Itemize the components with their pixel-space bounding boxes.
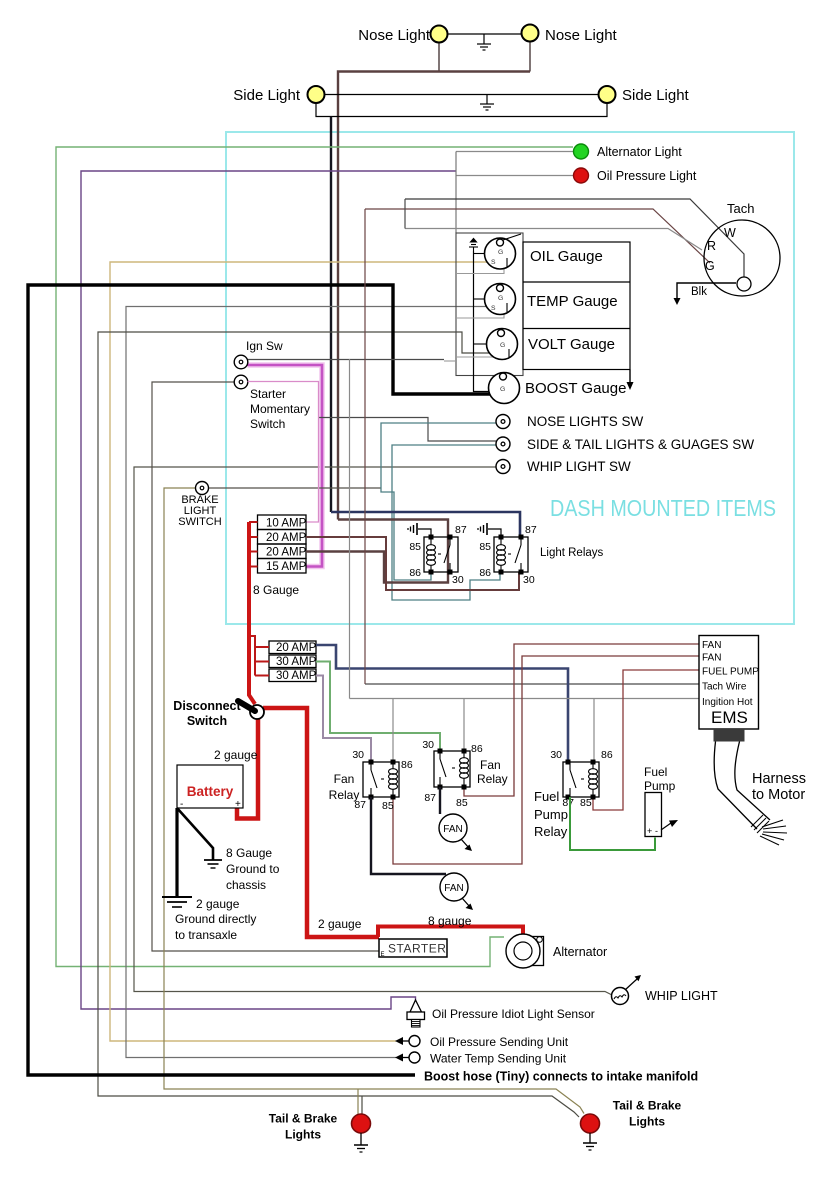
- svg-text:Ingition Hot: Ingition Hot: [702, 697, 753, 708]
- fuse1 red feed: [249, 522, 258, 567]
- svg-text:FAN: FAN: [702, 653, 721, 664]
- wire nose light right drop: [529, 41, 531, 72]
- oil pressure light: [574, 168, 589, 183]
- svg-text:85: 85: [456, 797, 468, 809]
- wire brown fuse 20amp to light relay L2: [306, 537, 519, 590]
- wire red fuse feed to disconnect: [249, 522, 255, 704]
- oil pressure idiot light sensor: [410, 1000, 422, 1012]
- dash mounted items box: [226, 132, 794, 624]
- svg-text:86: 86: [479, 567, 491, 579]
- svg-text:86: 86: [401, 759, 413, 771]
- svg-text:TEMP Gauge: TEMP Gauge: [527, 293, 618, 310]
- wire side lights to relay feed black: [330, 117, 332, 513]
- wire nose lights feed brown: [338, 72, 530, 520]
- volt gauge circle: [487, 329, 518, 360]
- svg-text:FAN: FAN: [702, 640, 721, 651]
- svg-text:85: 85: [382, 800, 394, 812]
- tach terminal circle: [737, 277, 751, 291]
- gauge cluster tall box: [456, 233, 523, 376]
- svg-text:Tach Wire: Tach Wire: [702, 682, 747, 693]
- wire battery ground to transaxle: [175, 808, 178, 897]
- light relay L2 terminals: [499, 535, 524, 575]
- svg-text:86: 86: [601, 749, 613, 761]
- nose lights sw terminal: [496, 415, 510, 429]
- wire tail light left second drop: [361, 1096, 363, 1114]
- wire gray stub to alternator light: [456, 151, 573, 153]
- svg-text:Blk: Blk: [691, 286, 707, 298]
- svg-text:Relay: Relay: [477, 772, 508, 786]
- svg-text:Lights: Lights: [629, 1115, 665, 1129]
- svg-text:W: W: [724, 226, 736, 240]
- wire navy side lights to relay L2 87: [331, 512, 520, 537]
- svg-text:8 gauge: 8 gauge: [428, 914, 472, 928]
- svg-text:-: -: [180, 799, 183, 810]
- svg-text:BOOST Gauge: BOOST Gauge: [525, 380, 626, 397]
- svg-text:Water Temp Sending Unit: Water Temp Sending Unit: [430, 1052, 567, 1066]
- svg-text:Oil Pressure Idiot Light Senso: Oil Pressure Idiot Light Sensor: [432, 1007, 595, 1021]
- wire fan relay A 87 to fan2: [371, 797, 446, 874]
- svg-text:Battery: Battery: [187, 784, 234, 799]
- svg-text:Switch: Switch: [187, 714, 227, 728]
- light relay L2 box: [494, 537, 528, 572]
- wire between nose lights: [447, 33, 522, 35]
- wire purple oil-pressure-light loop: [81, 171, 456, 1009]
- svg-text:G: G: [498, 295, 503, 302]
- tail light left ground: [360, 1133, 362, 1145]
- light relay L1 ground: [418, 529, 431, 537]
- alternator light: [574, 144, 589, 159]
- svg-text:Ign Sw: Ign Sw: [246, 339, 283, 353]
- svg-text:30: 30: [523, 574, 535, 586]
- svg-text:86: 86: [409, 567, 421, 579]
- svg-text:VOLT Gauge: VOLT Gauge: [528, 336, 615, 353]
- svg-text:20 AMP: 20 AMP: [266, 547, 307, 559]
- svg-text:S: S: [491, 259, 496, 266]
- svg-text:Side Light: Side Light: [622, 87, 690, 104]
- tail light right ground: [589, 1133, 591, 1143]
- svg-text:Fan: Fan: [480, 758, 501, 772]
- svg-text:Boost hose (Tiny) connects to: Boost hose (Tiny) connects to intake man…: [424, 1070, 698, 1084]
- svg-text:G: G: [705, 259, 715, 273]
- wire EMS fuel pump to fuel relay 85: [593, 670, 699, 810]
- svg-text:15 AMP: 15 AMP: [266, 561, 307, 573]
- svg-text:WHIP LIGHT SW: WHIP LIGHT SW: [527, 459, 631, 474]
- light relay L2 coil: [497, 537, 522, 572]
- wire brown fuse 20amp to light relay L1: [306, 520, 448, 583]
- svg-text:+: +: [647, 826, 652, 836]
- svg-text:G: G: [500, 342, 505, 349]
- whip light sw terminal: [496, 460, 510, 474]
- svg-text:SIDE & TAIL LIGHTS & GUAGES SW: SIDE & TAIL LIGHTS & GUAGES SW: [527, 437, 754, 452]
- svg-text:30: 30: [452, 574, 464, 586]
- svg-text:30 AMP: 30 AMP: [276, 656, 317, 668]
- svg-text:-: -: [655, 826, 658, 836]
- svg-text:FAN: FAN: [444, 883, 463, 894]
- starter momentary terminal: [234, 375, 248, 389]
- svg-text:FUEL PUMP: FUEL PUMP: [702, 667, 759, 678]
- fuel pump relay box: [563, 762, 599, 797]
- svg-text:85: 85: [479, 541, 491, 553]
- wire ign sw to bus: [248, 359, 445, 361]
- harness to motor cable: [714, 742, 757, 830]
- svg-text:to transaxle: to transaxle: [175, 928, 237, 942]
- wire tail light left drop: [357, 1089, 359, 1114]
- ign sw terminal: [234, 355, 248, 369]
- side light bulb right: [599, 86, 616, 103]
- svg-text:85: 85: [409, 541, 421, 553]
- svg-text:R: R: [707, 239, 716, 253]
- wire gray gauge-box drop: [455, 152, 457, 234]
- svg-text:30: 30: [422, 739, 434, 751]
- svg-text:Starter: Starter: [250, 387, 286, 401]
- svg-text:Alternator: Alternator: [553, 945, 607, 959]
- svg-text:Momentary: Momentary: [250, 402, 310, 416]
- svg-text:E: E: [381, 952, 385, 958]
- gauge illumination staircase: [444, 262, 504, 361]
- wire side lights bottom loop: [316, 103, 607, 117]
- svg-text:Fuel: Fuel: [534, 789, 559, 804]
- svg-text:Tail & Brake: Tail & Brake: [613, 1099, 682, 1113]
- svg-text:20 AMP: 20 AMP: [266, 532, 307, 544]
- oil gauge circle: [485, 238, 516, 269]
- wire EMS FAN1 to fan relay B 85: [464, 644, 699, 796]
- EMS box: [699, 636, 759, 730]
- svg-text:Pump: Pump: [644, 779, 676, 793]
- svg-text:STARTER: STARTER: [388, 942, 446, 956]
- wire tach black to EMS: [404, 199, 406, 229]
- fuel pump box: [645, 793, 662, 837]
- ground nose lights: [477, 34, 491, 50]
- gauge label box: [523, 242, 630, 370]
- fan 2 circle: [440, 873, 468, 901]
- svg-text:30: 30: [352, 749, 364, 761]
- svg-text:EMS: EMS: [711, 708, 748, 727]
- svg-text:Disconnect: Disconnect: [173, 699, 241, 713]
- tail light right: [581, 1114, 600, 1133]
- wire gray stub to oil pressure light: [456, 175, 573, 177]
- light relay L1 box: [424, 537, 458, 572]
- side tail sw terminal: [496, 437, 510, 451]
- nose light bulb right: [522, 25, 539, 42]
- wire lavender 30amp to fan relay A 30: [316, 676, 371, 763]
- fan 1 circle: [439, 814, 467, 842]
- disconnect switch: [250, 705, 264, 719]
- water temp sending unit: [395, 1054, 403, 1062]
- wire navy 20amp to fuel pump relay 30: [316, 645, 568, 762]
- light relay L2 ground: [488, 529, 501, 537]
- side light bulb left: [308, 86, 325, 103]
- svg-text:85: 85: [580, 797, 592, 809]
- wire tach R from ign: [365, 209, 710, 263]
- wire teal nose lights sw: [381, 423, 496, 580]
- wire green 30amp to fan relay B 30: [316, 662, 440, 752]
- fuse2 red feed: [249, 636, 269, 676]
- svg-text:Oil Pressure Light: Oil Pressure Light: [597, 169, 697, 183]
- svg-text:Side Light: Side Light: [233, 87, 301, 104]
- svg-text:Oil Pressure Sending Unit: Oil Pressure Sending Unit: [430, 1035, 569, 1049]
- svg-text:10 AMP: 10 AMP: [266, 518, 307, 530]
- tach Blk wire and arrow: [677, 283, 736, 299]
- fan relay B box: [434, 751, 470, 787]
- wire battery ground to chassis: [177, 808, 213, 860]
- wire gray temp gauge sender: [126, 307, 492, 1058]
- light relay L1 coil: [427, 537, 451, 572]
- light relay L1 terminals: [429, 535, 453, 575]
- svg-text:Fuel: Fuel: [644, 765, 667, 779]
- svg-text:WHIP LIGHT: WHIP LIGHT: [645, 989, 718, 1003]
- wire teal side tail sw: [392, 445, 500, 600]
- wire starter momentary to starter: [152, 382, 379, 951]
- wire tach G gray: [405, 229, 702, 251]
- temp gauge circle: [485, 284, 516, 315]
- nose light bulb left: [431, 26, 448, 43]
- svg-text:2 gauge: 2 gauge: [318, 917, 362, 931]
- alternator: [527, 937, 544, 966]
- wire EMS FAN2 to fan relay A 85: [393, 656, 699, 864]
- gauge G stubs: [474, 254, 490, 345]
- svg-text:SWITCH: SWITCH: [178, 516, 221, 528]
- fuse block 2: [269, 641, 316, 682]
- svg-text:8 Gauge: 8 Gauge: [253, 583, 299, 597]
- svg-text:Switch: Switch: [250, 417, 285, 431]
- svg-text:30: 30: [550, 749, 562, 761]
- svg-text:30 AMP: 30 AMP: [276, 670, 317, 682]
- svg-text:Tach: Tach: [727, 201, 754, 216]
- svg-text:Relay: Relay: [534, 824, 568, 839]
- svg-text:FAN: FAN: [443, 824, 462, 835]
- svg-text:OIL Gauge: OIL Gauge: [530, 248, 603, 265]
- wire red main 2 gauge to starter: [263, 708, 379, 937]
- gauge box arrow: [629, 370, 631, 385]
- EMS connector: [714, 729, 745, 742]
- wire red 8 gauge starter to alternator: [378, 927, 523, 938]
- svg-text:Ground to: Ground to: [226, 862, 280, 876]
- tach circle: [704, 220, 780, 296]
- starter box: [379, 939, 447, 957]
- wire boost hose thick black: [28, 285, 492, 1075]
- svg-text:87: 87: [424, 792, 436, 804]
- svg-text:Nose Light: Nose Light: [545, 27, 618, 44]
- svg-text:Fan: Fan: [334, 772, 355, 786]
- svg-text:to Motor: to Motor: [752, 787, 805, 803]
- svg-text:G: G: [498, 249, 503, 256]
- wire nose light left drop: [438, 42, 440, 72]
- wire red disconnect to battery: [237, 719, 258, 819]
- wire magenta ign hot to 15amp fuse: [248, 365, 323, 567]
- brake light switch terminal: [196, 482, 209, 495]
- svg-text:Harness: Harness: [752, 771, 806, 787]
- switch wires: pink 10amp riser: [319, 418, 497, 442]
- svg-text:S: S: [491, 305, 496, 312]
- svg-text:DASH MOUNTED ITEMS: DASH MOUNTED ITEMS: [550, 495, 776, 521]
- ground side lights: [480, 95, 494, 111]
- wire gray ignition-hot 86 bus: [349, 359, 351, 699]
- fuse block 1: [258, 515, 307, 573]
- svg-text:2 gauge: 2 gauge: [214, 748, 258, 762]
- tail light left: [352, 1114, 371, 1133]
- wire green fuel relay 87 to fuel pump: [570, 797, 655, 850]
- svg-text:G: G: [500, 386, 505, 393]
- svg-text:8 Gauge: 8 Gauge: [226, 846, 272, 860]
- svg-text:Light Relays: Light Relays: [540, 547, 604, 559]
- wire khaki brake switch / tail lights: [164, 488, 584, 1114]
- wire green alternator-light loop: [56, 147, 573, 967]
- svg-text:Relay: Relay: [329, 788, 360, 802]
- boost gauge circle: [489, 373, 520, 404]
- wire whip light switch loop: [134, 467, 612, 995]
- svg-text:86: 86: [471, 743, 483, 755]
- svg-text:NOSE LIGHTS SW: NOSE LIGHTS SW: [527, 414, 644, 429]
- svg-text:Lights: Lights: [285, 1128, 321, 1142]
- wire brake switch right: [209, 487, 382, 489]
- svg-text:Tail & Brake: Tail & Brake: [269, 1112, 338, 1126]
- svg-text:2 gauge: 2 gauge: [196, 897, 240, 911]
- gauge ground bus: [474, 251, 490, 392]
- svg-text:Nose Light: Nose Light: [358, 27, 431, 44]
- svg-text:chassis: chassis: [226, 878, 266, 892]
- svg-text:87: 87: [455, 524, 467, 536]
- wire volt gauge feed / tail light right: [98, 332, 579, 1117]
- svg-text:87: 87: [525, 524, 537, 536]
- fan relay A box: [363, 762, 399, 797]
- svg-text:Ground directly: Ground directly: [175, 912, 256, 926]
- wire fan relay B 87 to fan1: [439, 787, 441, 814]
- battery box: [177, 765, 243, 808]
- svg-text:+: +: [235, 799, 241, 810]
- svg-text:Pump: Pump: [534, 807, 568, 822]
- oil pressure sending unit: [395, 1037, 403, 1045]
- svg-text:Alternator Light: Alternator Light: [597, 145, 682, 159]
- wire tach W horizontal: [405, 199, 744, 277]
- wire tan oil gauge sender: [110, 262, 492, 1041]
- svg-text:20 AMP: 20 AMP: [276, 642, 317, 654]
- wire between side lights top: [324, 94, 598, 96]
- whip light: [612, 988, 629, 1005]
